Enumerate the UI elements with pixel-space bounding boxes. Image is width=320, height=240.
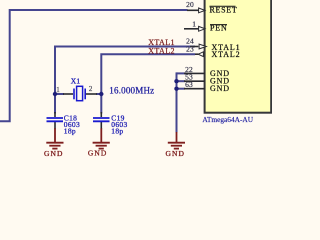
- svg-text:GND: GND: [166, 149, 186, 158]
- svg-text:1: 1: [192, 20, 196, 29]
- svg-text:XTAL2: XTAL2: [212, 50, 241, 59]
- svg-text:20: 20: [186, 0, 194, 9]
- svg-text:1: 1: [56, 86, 60, 94]
- svg-text:X1: X1: [71, 77, 81, 86]
- svg-text:18p: 18p: [111, 127, 123, 136]
- svg-text:GND: GND: [44, 149, 64, 158]
- svg-text:18p: 18p: [64, 127, 76, 136]
- svg-text:16.000MHz: 16.000MHz: [109, 85, 154, 95]
- svg-text:2: 2: [89, 85, 93, 93]
- svg-text:ATmega64A-AU: ATmega64A-AU: [202, 115, 253, 124]
- svg-text:XTAL2: XTAL2: [148, 46, 175, 55]
- svg-text:GND: GND: [210, 84, 230, 93]
- svg-text:23: 23: [186, 45, 194, 54]
- svg-text:RESET: RESET: [210, 5, 238, 14]
- svg-text:GND: GND: [88, 149, 108, 158]
- svg-text:63: 63: [185, 80, 193, 89]
